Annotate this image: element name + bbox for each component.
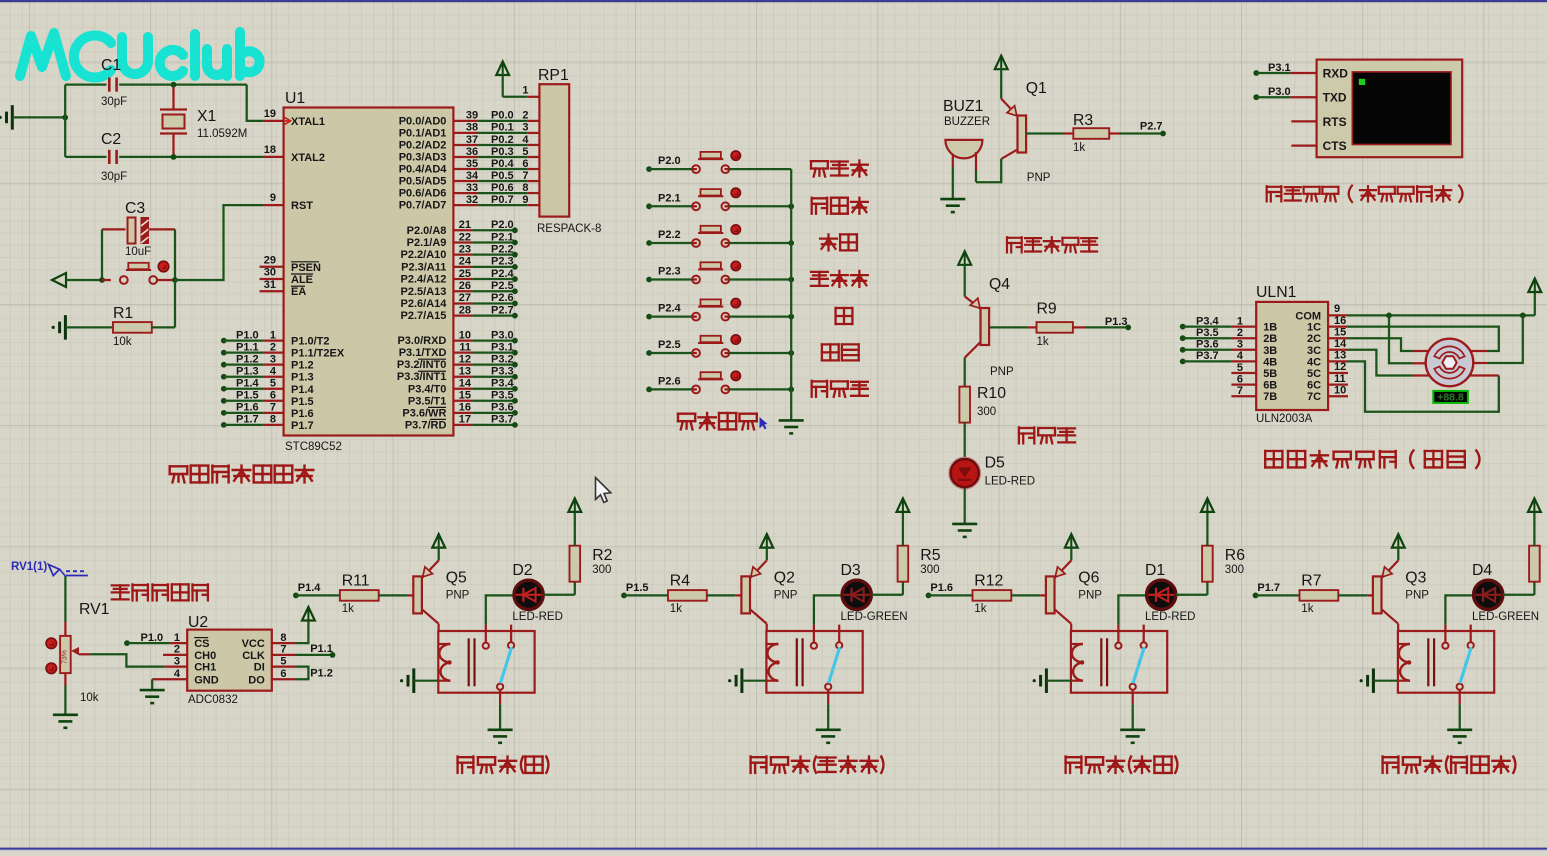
led D1 LED-RED [1145, 579, 1177, 611]
relay switch lever [1460, 647, 1471, 683]
svg-text:DO: DO [248, 674, 265, 686]
led D3 LED-GREEN [841, 579, 873, 611]
svg-text:21: 21 [459, 219, 471, 231]
svg-text:P2.0: P2.0 [491, 219, 514, 231]
wire Q5 collector [438, 624, 440, 631]
svg-text:9: 9 [1334, 303, 1340, 315]
svg-text:11.0592M: 11.0592M [197, 128, 247, 140]
crystal X1 [160, 85, 187, 157]
svg-text:P0.3: P0.3 [491, 146, 514, 158]
svg-text:PNP: PNP [1405, 589, 1429, 601]
label 继电器(空调) [1066, 756, 1178, 774]
svg-text:DI: DI [254, 662, 265, 674]
ground arrow terminal reset [52, 273, 102, 287]
node P2.5 terminal [646, 350, 652, 356]
svg-text:5: 5 [270, 378, 276, 390]
node P2.6 terminal [646, 387, 652, 393]
svg-text:PNP: PNP [1027, 172, 1051, 184]
wire Q1 collector [976, 159, 1001, 182]
svg-text:14: 14 [459, 378, 472, 390]
svg-text:PNP: PNP [446, 589, 470, 601]
label lighting [1019, 427, 1075, 443]
wire relay common to ground [499, 690, 501, 730]
power terminal relay coil [728, 668, 766, 693]
pin CH0 stub [163, 644, 216, 662]
transistor Q2 PNP [741, 560, 766, 623]
pin P1.7 wire [221, 414, 314, 432]
svg-text:P2.4: P2.4 [491, 268, 515, 280]
svg-text:P2.7: P2.7 [491, 304, 514, 316]
node reset left [99, 277, 105, 283]
svg-text:RTS: RTS [1323, 115, 1347, 129]
svg-text:23: 23 [459, 243, 471, 255]
svg-text:R4: R4 [670, 572, 690, 589]
svg-text:P0.2/AD2: P0.2/AD2 [399, 139, 447, 151]
button KEY5 [649, 299, 791, 320]
svg-text:300: 300 [1225, 564, 1244, 576]
svg-text:P0.0/AD0: P0.0/AD0 [399, 115, 447, 127]
svg-text:8: 8 [280, 632, 286, 644]
svg-text:C3: C3 [125, 200, 145, 217]
svg-text:P1.7: P1.7 [291, 420, 314, 432]
pin P0.0 net [399, 110, 540, 128]
svg-text:P3.6: P3.6 [1196, 339, 1219, 351]
stepper motor M1 [1413, 339, 1499, 387]
svg-text:D2: D2 [512, 562, 532, 579]
label 空调 [820, 234, 857, 250]
pin XTAL2 [263, 144, 325, 164]
svg-text:7B: 7B [1263, 391, 1277, 403]
svg-text:7: 7 [522, 170, 528, 182]
svg-text:2: 2 [522, 110, 528, 122]
svg-text:P1.3: P1.3 [1105, 316, 1128, 328]
svg-text:P0.1: P0.1 [491, 122, 514, 134]
capacitor C1 [65, 78, 247, 92]
svg-text:P2.3: P2.3 [491, 256, 514, 268]
svg-text:22: 22 [459, 231, 471, 243]
svg-text:18: 18 [264, 144, 276, 156]
relay RL body [438, 631, 534, 693]
resistor 300 top [1529, 512, 1540, 594]
svg-text:15: 15 [459, 390, 471, 402]
node P2.1 terminal [646, 203, 652, 209]
svg-text:LED-RED: LED-RED [512, 611, 562, 623]
svg-text:2C: 2C [1307, 333, 1321, 345]
pin P2.5 net [401, 280, 518, 298]
wire relay common to ground [1459, 690, 1461, 730]
label 照明灯 [812, 381, 868, 397]
svg-text:11: 11 [1334, 373, 1346, 385]
wire COM to motor left mid [1389, 315, 1413, 363]
pin EA [260, 279, 307, 298]
capacitor C3 [102, 218, 175, 244]
pin P0.4 net [399, 158, 540, 176]
small blue cursor [760, 417, 768, 430]
pin VCC wire [242, 620, 309, 650]
pin P2.7 net [401, 304, 518, 322]
svg-text:RV1(1): RV1(1) [11, 561, 47, 573]
svg-text:R2: R2 [592, 547, 612, 564]
pin CS net P1.0 [124, 632, 209, 650]
svg-text:P2.2: P2.2 [658, 229, 681, 241]
pin RST [263, 192, 313, 212]
svg-text:32: 32 [466, 194, 478, 206]
relay RL body [1398, 631, 1494, 693]
wire Q6 collector [1070, 624, 1072, 631]
svg-text:LED-GREEN: LED-GREEN [841, 611, 908, 623]
svg-text:P2.6: P2.6 [491, 292, 514, 304]
svg-text:R12: R12 [974, 572, 1003, 589]
pin 6B stub [1231, 373, 1277, 391]
wire relay NO contact [1445, 595, 1473, 642]
wire C3 left down [101, 229, 103, 280]
wire led to resistor [871, 594, 903, 596]
relay switch lever [829, 647, 840, 683]
svg-text:P1.3: P1.3 [236, 366, 259, 378]
svg-text:P3.1: P3.1 [1268, 62, 1291, 74]
svg-text:38: 38 [466, 122, 478, 134]
svg-text:13: 13 [1334, 350, 1346, 362]
svg-text:ULN2003A: ULN2003A [1256, 413, 1313, 425]
svg-text:28: 28 [459, 304, 471, 316]
wire relay common to ground [827, 690, 829, 730]
button marker [731, 299, 740, 308]
pin TXD [1290, 91, 1347, 105]
svg-text:P1.4: P1.4 [298, 582, 322, 594]
svg-text:Q5: Q5 [446, 569, 467, 586]
driver-chip ULN1 body [1256, 302, 1328, 410]
node junction C1C2 rail [62, 85, 68, 157]
svg-text:P2.4/A12: P2.4/A12 [401, 274, 447, 286]
led D5 LED-RED [949, 457, 981, 489]
svg-text:P2.5: P2.5 [658, 339, 681, 351]
svg-text:1: 1 [174, 632, 180, 644]
pin 5B stub [1231, 362, 1277, 380]
wire P3.1 [1253, 62, 1290, 76]
button marker [731, 188, 740, 197]
pin P1.3 wire [221, 366, 314, 384]
svg-text:XTAL2: XTAL2 [291, 152, 325, 164]
svg-text:3: 3 [522, 122, 528, 134]
label 热水器 [811, 271, 868, 287]
resistor R10 [959, 387, 970, 423]
node X1 top [171, 82, 177, 88]
led D4 LED-GREEN [1472, 579, 1504, 611]
pin RP1 1 [522, 85, 539, 97]
pin RXD [1290, 67, 1348, 81]
wire buzzer right [975, 170, 977, 182]
wire led to resistor [1503, 594, 1535, 596]
label light adjust [112, 584, 208, 600]
ground relay [816, 728, 841, 731]
svg-text:D1: D1 [1145, 562, 1165, 579]
pin 2C stub [1307, 326, 1348, 345]
svg-text:P1.0: P1.0 [236, 329, 259, 341]
svg-text:10k: 10k [113, 336, 132, 348]
svg-text:COM: COM [1295, 310, 1321, 322]
svg-text:Q2: Q2 [774, 569, 795, 586]
node P1.3 [1125, 325, 1131, 331]
svg-text:C2: C2 [101, 131, 121, 148]
MCUclub logo [20, 32, 260, 78]
pin XTAL1 [263, 108, 325, 128]
svg-text:P2.2: P2.2 [491, 243, 514, 255]
svg-text:7C: 7C [1307, 391, 1321, 403]
button marker [731, 261, 740, 270]
pin 7B stub [1231, 385, 1277, 403]
svg-text:6: 6 [522, 158, 528, 170]
svg-text:P1.6: P1.6 [291, 408, 314, 420]
svg-text:LED-GREEN: LED-GREEN [1472, 611, 1539, 623]
svg-text:ADC0832: ADC0832 [188, 694, 238, 706]
pin P1.2 wire [221, 353, 314, 371]
power arrow Q4 [958, 251, 971, 296]
power arrow R7 top [1533, 499, 1535, 512]
svg-text:P1.5: P1.5 [236, 390, 259, 402]
node X1 bottom [171, 154, 177, 160]
svg-text:P0.7: P0.7 [491, 194, 514, 206]
label 继电器(加湿器) [1383, 756, 1516, 774]
svg-text:STC89C52: STC89C52 [285, 441, 342, 453]
power arrow R4 top [902, 499, 904, 512]
power terminal relay coil [400, 668, 438, 693]
svg-text:P3.3: P3.3 [491, 366, 514, 378]
svg-text:2: 2 [270, 341, 276, 353]
svg-text:15: 15 [1334, 326, 1346, 338]
power arrow Q2 [760, 534, 773, 560]
wire C3 right down [174, 229, 176, 280]
svg-text:U1: U1 [285, 90, 305, 107]
pin 4B net P3.7 [1180, 350, 1278, 368]
svg-text:P2.0: P2.0 [658, 155, 681, 167]
pin P1.6 wire [221, 402, 314, 420]
svg-text:P0.5/AD5: P0.5/AD5 [399, 176, 447, 188]
wire 2C to motor left top [1348, 338, 1413, 351]
ground RV1 [53, 713, 78, 716]
pin P0.3 net [399, 146, 540, 164]
transistor Q3 PNP [1373, 560, 1398, 623]
node COM 2 [1520, 313, 1526, 319]
wire [12, 116, 65, 118]
resistor R9 [989, 322, 1128, 333]
svg-text:P3.7: P3.7 [1196, 350, 1219, 362]
svg-text:P2.2/A10: P2.2/A10 [401, 249, 447, 261]
svg-text:R10: R10 [977, 385, 1006, 402]
svg-text:16: 16 [459, 402, 471, 414]
svg-text:VCC: VCC [242, 638, 265, 650]
wire relay NO contact [814, 595, 842, 642]
transistor Q5 PNP [413, 560, 438, 623]
label 门 [836, 308, 853, 324]
svg-text:P3.7/RD: P3.7/RD [405, 419, 447, 431]
terminal cursor [1359, 79, 1365, 85]
pot up button [46, 638, 56, 648]
label buzzer alarm [1007, 237, 1097, 252]
svg-text:4: 4 [1237, 350, 1244, 362]
svg-text:CH1: CH1 [194, 662, 216, 674]
svg-text:5: 5 [280, 655, 286, 667]
node bus junction [788, 314, 794, 320]
pin P2.2 net [401, 243, 518, 261]
pin 2B net P3.5 [1180, 327, 1278, 345]
wire R10 to D5 [964, 423, 966, 459]
pin 7C stub [1307, 384, 1348, 403]
pin P1.5 wire [221, 390, 314, 408]
ground relay [1447, 728, 1472, 731]
node P2.7 [1160, 131, 1166, 137]
svg-text:TXD: TXD [1323, 91, 1347, 105]
svg-text:P3.5: P3.5 [491, 390, 514, 402]
svg-text:P1.6: P1.6 [236, 402, 259, 414]
node P1.7 terminal [1253, 593, 1259, 599]
label stepper motor [1265, 450, 1479, 469]
led D2 LED-RED [513, 579, 545, 611]
svg-text:300: 300 [977, 406, 996, 418]
svg-text:P2.0/A8: P2.0/A8 [407, 225, 447, 237]
svg-text:P1.5: P1.5 [291, 396, 314, 408]
svg-text:9: 9 [270, 192, 276, 204]
buzzer BUZ1 [945, 140, 982, 170]
button marker [158, 261, 168, 271]
svg-text:P1.5: P1.5 [626, 582, 649, 594]
wire Q4 collector [964, 358, 966, 387]
label 继电器(门) [458, 756, 549, 774]
svg-text:P0.6/AD6: P0.6/AD6 [399, 188, 447, 200]
svg-text:P0.1/AD1: P0.1/AD1 [399, 127, 447, 139]
svg-text:P2.7: P2.7 [1140, 121, 1163, 133]
pin P0.5 net [399, 170, 540, 188]
svg-text:300: 300 [920, 564, 939, 576]
pin P0.7 net [399, 194, 540, 212]
svg-text:R3: R3 [1073, 112, 1093, 129]
svg-text:P3.1: P3.1 [491, 341, 514, 353]
svg-text:9: 9 [522, 194, 528, 206]
wire Q2 collector [766, 624, 768, 631]
power arrow motor [1534, 280, 1536, 293]
wire relay NC contact [510, 625, 512, 643]
svg-text:LED-RED: LED-RED [985, 476, 1035, 488]
node bus junction [788, 387, 794, 393]
svg-text:14: 14 [1334, 338, 1347, 350]
relay RL body [766, 631, 862, 693]
svg-text:P1.2: P1.2 [310, 667, 333, 679]
wire relay NC contact [1143, 625, 1145, 643]
potentiometer RV1 [60, 622, 90, 686]
pin CLK net P1.1 [242, 643, 335, 662]
pin CTS [1291, 139, 1346, 153]
svg-text:P3.2: P3.2 [491, 353, 514, 365]
svg-text:10: 10 [1334, 384, 1346, 396]
power terminal R1 [64, 315, 67, 340]
wire P3.0 [1253, 86, 1290, 100]
svg-text:300: 300 [592, 564, 611, 576]
svg-text:P1.2: P1.2 [291, 360, 314, 372]
transistor Q4 PNP [965, 296, 989, 357]
wire R1 vertical [174, 280, 176, 327]
svg-text:1: 1 [270, 329, 276, 341]
node P2.4 terminal [646, 314, 652, 320]
pin 1B net P3.4 [1180, 315, 1278, 333]
wire Q3 collector [1397, 624, 1399, 631]
svg-text:CTS: CTS [1323, 139, 1347, 153]
svg-text:P2.1/A9: P2.1/A9 [407, 237, 447, 249]
pin 1C stub [1307, 315, 1348, 334]
pin GND wire [152, 668, 219, 690]
svg-text:P2.7/A15: P2.7/A15 [401, 310, 447, 322]
node COM 1 [1386, 313, 1392, 319]
pin P2.3 net [401, 256, 518, 274]
node bus junction [788, 277, 794, 283]
node P1.5 terminal [621, 593, 627, 599]
node P1.4 terminal [293, 593, 299, 599]
pin P0.6 net [399, 182, 540, 200]
motor display [1433, 391, 1468, 404]
wire RST [175, 205, 263, 280]
svg-text:P0.5: P0.5 [491, 170, 514, 182]
button KEY4 [649, 262, 791, 283]
svg-text:35: 35 [466, 158, 478, 170]
button marker [731, 335, 740, 344]
wire relay NC contact [1470, 625, 1472, 643]
svg-text:+88.8: +88.8 [1437, 392, 1464, 404]
svg-text:P3.1/TXD: P3.1/TXD [399, 347, 447, 359]
svg-text:P1.2: P1.2 [236, 353, 259, 365]
node bus junction [788, 203, 794, 209]
svg-text:P3.0: P3.0 [491, 329, 514, 341]
svg-text:ALE: ALE [291, 274, 313, 286]
svg-text:1k: 1k [1301, 603, 1313, 615]
wire led to resistor [1176, 594, 1208, 596]
reset button [102, 263, 175, 284]
svg-text:Q6: Q6 [1078, 569, 1099, 586]
node bus junction [788, 350, 794, 356]
node P1.6 terminal [926, 593, 932, 599]
pin P1.4 wire [221, 378, 315, 396]
svg-text:2: 2 [174, 644, 180, 656]
pin 5C stub [1307, 361, 1348, 380]
node bus junction [788, 240, 794, 246]
svg-text:6: 6 [270, 390, 276, 402]
pin P3.7 net [405, 414, 518, 432]
svg-text:PNP: PNP [1078, 589, 1102, 601]
virtual terminal body [1317, 60, 1463, 158]
ground U2 [140, 689, 165, 692]
node P2.2 terminal [646, 240, 652, 246]
pin 3C stub [1307, 338, 1348, 357]
svg-text:P3.0: P3.0 [1268, 86, 1291, 98]
resistor-pack RP1 body [539, 84, 569, 216]
svg-text:P1.6: P1.6 [930, 582, 953, 594]
svg-text:12: 12 [1334, 361, 1346, 373]
svg-text:P3.6/WR: P3.6/WR [402, 407, 446, 419]
svg-text:3: 3 [1237, 339, 1243, 351]
pin COM stub [1295, 303, 1348, 322]
svg-text:36: 36 [466, 146, 478, 158]
svg-text:PSEN: PSEN [291, 262, 321, 274]
resistor R12 [929, 590, 1046, 601]
pin P2.1 net [407, 231, 518, 249]
svg-text:24: 24 [459, 256, 472, 268]
svg-text:P3.4: P3.4 [1196, 315, 1220, 327]
svg-text:34: 34 [466, 170, 479, 182]
wire relay NO contact [486, 595, 514, 642]
svg-text:GND: GND [194, 674, 219, 686]
svg-text:3C: 3C [1307, 345, 1321, 357]
button KEY1 [649, 152, 791, 173]
pin P2.6 net [401, 292, 518, 310]
svg-text:37: 37 [466, 134, 478, 146]
svg-text:1: 1 [1237, 315, 1243, 327]
